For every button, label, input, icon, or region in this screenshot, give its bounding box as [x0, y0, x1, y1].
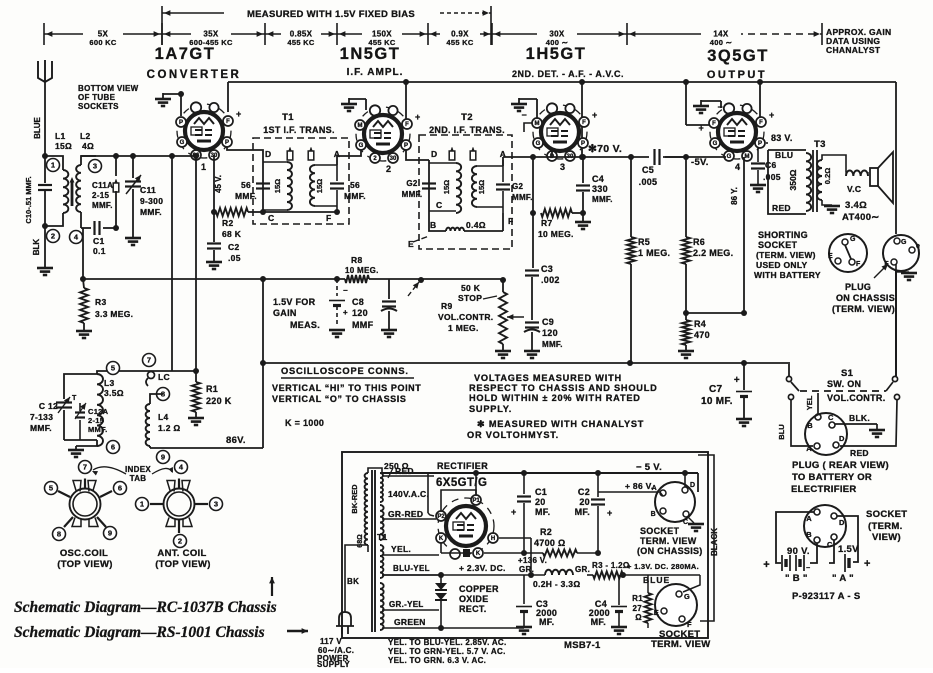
wire pin to osc 2: [195, 155, 197, 372]
svg-text:C7: C7: [709, 384, 723, 395]
svg-text:K: K: [476, 551, 481, 557]
wire bus to 3Q5GT plate: [759, 82, 761, 120]
battery socket pins: [814, 509, 820, 515]
svg-text:1: 1: [201, 162, 206, 172]
wire -5V down: [697, 473, 699, 492]
battery B cells: [781, 555, 783, 571]
svg-text:2ND. I.F. TRANS.: 2ND. I.F. TRANS.: [429, 125, 505, 135]
svg-text:1.5V: 1.5V: [838, 544, 859, 555]
svg-text:2ND. DET. - A.F. - A.V.C.: 2ND. DET. - A.F. - A.V.C.: [512, 69, 624, 79]
svg-text:90 V.: 90 V.: [787, 546, 810, 557]
resistor R3: [83, 279, 84, 288]
svg-text:C10-.51 MMF.: C10-.51 MMF.: [24, 176, 33, 223]
wire 1N5GT plate to D: [406, 150, 429, 160]
svg-text:VERTICAL “HI” TO THIS POINT: VERTICAL “HI” TO THIS POINT: [272, 383, 421, 393]
svg-text:YEL. TO BLU-YEL. 2.85V. AC.: YEL. TO BLU-YEL. 2.85V. AC.: [388, 638, 507, 647]
svg-text:ANT. COIL: ANT. COIL: [157, 548, 206, 559]
svg-text:C12A: C12A: [88, 407, 109, 416]
osc terminal 5: [45, 482, 58, 495]
resistor R2 power: [524, 552, 543, 554]
svg-text:P1: P1: [472, 498, 480, 504]
bias battery 1.5V: [336, 279, 338, 296]
ground antenna line: [37, 267, 53, 270]
svg-text:5: 5: [111, 364, 115, 373]
svg-text:(TERM. VIEW): (TERM. VIEW): [832, 304, 895, 314]
rect tube pins: [471, 495, 481, 505]
svg-text:P-923117 A - S: P-923117 A - S: [792, 591, 860, 602]
svg-text:2: 2: [51, 232, 55, 241]
svg-text:G: G: [359, 143, 364, 149]
svg-text:+: +: [415, 112, 421, 122]
svg-text:(TOP VIEW): (TOP VIEW): [155, 559, 210, 570]
plug on chassis pins: [894, 238, 900, 244]
svg-text:C6: C6: [765, 160, 776, 170]
switch S1 left blade: [788, 364, 790, 376]
svg-text:BLUE: BLUE: [33, 116, 42, 138]
svg-text:(ON CHASSIS): (ON CHASSIS): [637, 546, 703, 556]
capacitor C10: [38, 184, 52, 186]
note plug on chassis: [874, 264, 888, 278]
coil T2 primary: [429, 162, 456, 164]
wire below C10: [44, 191, 46, 268]
svg-text:STOP: STOP: [458, 293, 482, 303]
coil T3 primary: [806, 153, 811, 211]
svg-text:OSCILLOSCOPE CONNS.: OSCILLOSCOPE CONNS.: [281, 366, 409, 376]
svg-text:T1: T1: [282, 112, 294, 123]
svg-text:R4: R4: [694, 319, 706, 329]
svg-text:RECTIFIER: RECTIFIER: [437, 461, 488, 471]
ground at 3Q5GT: [700, 100, 702, 106]
ground socket chassis: [688, 517, 694, 523]
wire bus to 1N5GT: [405, 82, 407, 120]
svg-text:G: G: [727, 154, 732, 160]
svg-text:H: H: [491, 536, 495, 542]
svg-text:(TERM.: (TERM.: [868, 521, 903, 532]
coil L4: [150, 394, 163, 404]
svg-text:T: T: [72, 395, 77, 402]
svg-text:+ 1.3V. DC. 280MA.: + 1.3V. DC. 280MA.: [627, 562, 699, 571]
svg-text:SHORTING: SHORTING: [758, 230, 808, 240]
svg-text:7-133: 7-133: [30, 412, 53, 422]
switch dashed link: [800, 390, 886, 392]
svg-text:MF.: MF.: [535, 507, 550, 517]
terminal 9 osc: [157, 451, 170, 464]
capacitor 56mmf left: [256, 182, 270, 184]
svg-text:K: K: [439, 536, 444, 542]
svg-text:MMF.: MMF.: [30, 423, 52, 433]
svg-text:− 5 V.: − 5 V.: [636, 462, 662, 473]
svg-text:.005: .005: [763, 172, 781, 182]
svg-text:R3: R3: [95, 297, 106, 307]
svg-text:MMF.: MMF.: [344, 191, 366, 201]
trimmer C12A: [79, 420, 81, 440]
svg-text:MMF.: MMF.: [140, 207, 162, 217]
svg-text:OSC.COIL: OSC.COIL: [60, 548, 108, 559]
resistor R2: [216, 208, 248, 216]
svg-text:OXIDE: OXIDE: [459, 594, 489, 604]
svg-text:10 MF.: 10 MF.: [701, 396, 733, 407]
diode copper oxide: [440, 575, 442, 583]
battery A cells: [844, 554, 846, 572]
svg-text:1ST I.F. TRANS.: 1ST I.F. TRANS.: [263, 125, 335, 135]
svg-text:SOCKET: SOCKET: [640, 526, 680, 536]
svg-text:0.4Ω: 0.4Ω: [466, 220, 486, 230]
svg-text:9: 9: [161, 453, 165, 462]
svg-text:+: +: [763, 559, 770, 571]
svg-text:TERM. VIEW: TERM. VIEW: [651, 639, 710, 650]
svg-text:6X5GT/G: 6X5GT/G: [436, 477, 487, 489]
svg-text:K = 1000: K = 1000: [285, 418, 324, 428]
osc coil top view: [70, 489, 101, 520]
svg-text:R2: R2: [222, 218, 233, 228]
ground at 1N5GT: [348, 98, 350, 104]
svg-text:.05: .05: [228, 253, 241, 263]
svg-text:F: F: [712, 121, 716, 127]
svg-text:0.2Ω: 0.2Ω: [823, 168, 832, 184]
ground at 1H5GT: [518, 98, 520, 104]
svg-text:6: 6: [111, 443, 115, 452]
svg-text:YEL. TO GRN. 6.3 V. A: YEL. TO GRN. 6.3 V. AC.: [388, 656, 486, 665]
wire 1.3V line: [623, 574, 700, 576]
wire blue to socket: [683, 575, 700, 592]
coil T1 secondary: [315, 164, 337, 166]
capacitor C1 power: [523, 473, 525, 494]
resistor R1: [195, 371, 197, 382]
terminal 6 osc: [107, 441, 120, 454]
caption arrow up: [271, 577, 273, 596]
svg-text:-5V.: -5V.: [691, 157, 709, 168]
svg-text:455 KC: 455 KC: [287, 38, 315, 47]
power transformer primary: [365, 473, 368, 545]
svg-text:400 ∼: 400 ∼: [710, 38, 733, 47]
choke 0.2H: [545, 570, 573, 575]
svg-text:1N5GT: 1N5GT: [340, 45, 401, 63]
svg-text:CHANALYST: CHANALYST: [826, 45, 881, 55]
tap GR-RED: [382, 518, 436, 520]
svg-text:15Ω: 15Ω: [315, 179, 324, 193]
wire plug chassis down: [895, 264, 897, 272]
T3 primary box: [768, 150, 806, 214]
capacitor C3: [525, 269, 539, 271]
coil L3: [97, 374, 103, 446]
wire top bus: [228, 81, 896, 83]
wire YEL: [817, 393, 819, 414]
svg-text:SOCKET: SOCKET: [866, 509, 907, 520]
svg-text:9: 9: [108, 529, 112, 538]
wire 1H5GT M left: [524, 123, 532, 132]
osc terminal 8: [53, 528, 66, 541]
wire T3 sec bottom: [822, 200, 832, 205]
svg-text:G: G: [180, 140, 185, 146]
svg-text:M: M: [535, 121, 540, 127]
osc terminal 7: [79, 461, 92, 474]
power transformer secondary: [380, 473, 383, 502]
osc terminal 9: [104, 527, 117, 540]
svg-text:PLUG: PLUG: [845, 282, 871, 292]
ant coil legs: [150, 503, 163, 505]
rect tube top bracket: [441, 490, 476, 511]
svg-text:CONVERTER: CONVERTER: [147, 69, 242, 81]
svg-text:GAIN: GAIN: [273, 308, 297, 318]
shorting socket circle: [829, 234, 867, 272]
capacitor C6: [757, 148, 759, 162]
svg-text:RED: RED: [772, 203, 791, 213]
svg-text:455 KC: 455 KC: [446, 38, 474, 47]
pins 1A7GT: [176, 117, 186, 127]
svg-text:R7: R7: [541, 218, 552, 228]
terminal 2: [47, 230, 60, 243]
svg-text:VIEW): VIEW): [872, 532, 901, 543]
svg-text:+ 86 V.: + 86 V.: [625, 481, 654, 491]
svg-text:MEAS.: MEAS.: [290, 320, 320, 330]
coil 0.4ohm: [429, 213, 446, 231]
svg-text:V.C: V.C: [847, 184, 861, 194]
power transformer core: [371, 470, 373, 632]
wire battery B lead: [776, 512, 814, 563]
svg-text:4700 Ω: 4700 Ω: [534, 538, 566, 548]
tap GREEN: [382, 627, 524, 629]
svg-text:G: G: [901, 239, 907, 246]
svg-text:G: G: [536, 141, 541, 147]
trimmer T2 a: [449, 151, 455, 160]
svg-text:M: M: [745, 154, 750, 160]
ground C7: [736, 418, 752, 421]
antenna: [38, 61, 52, 82]
svg-text:P: P: [581, 141, 585, 147]
svg-text:✻ MEASURED WITH CHANALYST: ✻ MEASURED WITH CHANALYST: [477, 419, 644, 429]
svg-text:GR.: GR.: [519, 565, 534, 574]
svg-text:2: 2: [386, 164, 391, 174]
svg-text:GR.-YEL: GR.-YEL: [389, 600, 424, 609]
capacitor C5: [649, 149, 665, 165]
svg-text:140V.A.C.: 140V.A.C.: [388, 489, 429, 499]
mains plug: [345, 545, 368, 612]
svg-text:(TERM. VIEW): (TERM. VIEW): [756, 250, 816, 260]
svg-text:MMF.: MMF.: [235, 191, 257, 201]
wire GR line: [382, 574, 545, 576]
bottom socket: [655, 584, 697, 626]
pins 1N5GT: [355, 120, 365, 130]
svg-text:VOLTAGES MEASURED WITH: VOLTAGES MEASURED WITH: [474, 373, 622, 383]
svg-text:USED ONLY: USED ONLY: [756, 260, 808, 270]
svg-text:MMF.: MMF.: [542, 340, 563, 349]
svg-text:7: 7: [147, 356, 151, 365]
svg-text:MMF.: MMF.: [92, 201, 113, 210]
svg-text:2-15: 2-15: [92, 191, 109, 200]
svg-text:C: C: [683, 519, 688, 526]
coil L1: [45, 156, 63, 170]
svg-text:BK: BK: [347, 577, 359, 586]
capacitor C4 power: [618, 575, 620, 605]
svg-text:350Ω: 350Ω: [788, 169, 798, 190]
svg-text:−: −: [717, 102, 723, 112]
svg-text:1: 1: [51, 161, 55, 170]
trimmer C11A: [115, 156, 117, 176]
svg-text:D: D: [839, 518, 845, 527]
svg-text:BLUE: BLUE: [643, 575, 670, 585]
wire 70V line: [503, 156, 726, 158]
svg-text:5: 5: [49, 484, 53, 493]
capacitor C9: [525, 321, 539, 323]
svg-text:6: 6: [118, 484, 122, 493]
terminal 8 osc: [157, 388, 170, 401]
svg-text:T1: T1: [377, 532, 388, 542]
coil T2 secondary: [477, 165, 503, 167]
wire pin to osc 1: [171, 156, 173, 371]
wire BLU: [791, 400, 813, 446]
tube V4 3Q5GT: [710, 105, 764, 159]
coil T3 secondary: [817, 160, 822, 200]
svg-text:BLK.: BLK.: [849, 413, 870, 423]
svg-text:e: e: [916, 243, 920, 250]
svg-text:+: +: [592, 110, 598, 120]
svg-text:AT400∼: AT400∼: [842, 212, 880, 223]
oscilloscope arrow: [408, 282, 419, 296]
svg-text:C: C: [827, 540, 833, 549]
svg-text:.002: .002: [541, 275, 560, 285]
capacitor C12: [64, 374, 97, 399]
svg-text:−: −: [806, 565, 810, 572]
trimmer T1 b: [308, 151, 314, 160]
capacitor C8: [388, 279, 390, 299]
wire D down to R7: [532, 157, 534, 213]
pins 1H5GT: [532, 118, 542, 128]
wire pin down R2: [213, 155, 215, 212]
svg-text:HOLD WITHIN ± 20% WITH RAT: HOLD WITHIN ± 20% WITH RATED: [469, 393, 641, 403]
svg-text:+: +: [511, 507, 517, 517]
svg-text:C: C: [828, 413, 834, 422]
terminal 1: [47, 159, 60, 172]
svg-text:SUPPLY: SUPPLY: [317, 660, 350, 668]
capacitor C7: [743, 363, 745, 390]
svg-text:F: F: [687, 620, 692, 629]
coupling arrow: [71, 180, 74, 206]
svg-text:2-15: 2-15: [88, 416, 104, 425]
svg-text:MF.: MF.: [575, 507, 590, 517]
gain scale bracket: [162, 12, 224, 14]
wire battery A lead: [837, 516, 858, 562]
svg-text:VOL.CONTR.: VOL.CONTR.: [438, 312, 493, 322]
pins 3Q5GT: [709, 118, 719, 128]
ant coil top view: [164, 489, 195, 520]
svg-text:BK-RED: BK-RED: [350, 484, 359, 514]
svg-text:83 V.: 83 V.: [771, 133, 793, 143]
capacitor C2: [213, 212, 215, 242]
dashed box T2: [419, 135, 512, 249]
variable capacitor C11: [132, 156, 134, 178]
svg-text:C3: C3: [541, 264, 553, 274]
svg-text:YEL. TO GRN-YEL. 5.7 V. AC.: YEL. TO GRN-YEL. 5.7 V. AC.: [388, 647, 506, 656]
svg-text:F: F: [759, 120, 763, 126]
svg-text:+: +: [607, 508, 613, 518]
svg-text:L1: L1: [55, 131, 66, 141]
wire RED: [840, 400, 897, 446]
svg-text:Schematic Diagram—RS-1001 Chas: Schematic Diagram—RS-1001 Chassis: [14, 624, 265, 641]
svg-text:C1: C1: [93, 236, 104, 246]
speaker: [870, 168, 878, 186]
svg-text:D: D: [431, 149, 437, 159]
svg-text:27: 27: [633, 604, 643, 613]
svg-text:P: P: [179, 120, 183, 126]
wire A to 1N5GT grid: [337, 150, 361, 160]
svg-text:+136 V.: +136 V.: [518, 556, 547, 565]
svg-text:WITH BATTERY: WITH BATTERY: [754, 270, 821, 280]
svg-text:MMF.: MMF.: [512, 193, 533, 202]
terminal 4: [70, 231, 83, 244]
svg-text:0.1: 0.1: [93, 246, 106, 256]
wire osc vertical: [262, 279, 264, 363]
svg-text:BOTTOM VIEW: BOTTOM VIEW: [78, 84, 139, 93]
wire bus to 1A7GT: [227, 82, 229, 112]
svg-text:C8: C8: [352, 297, 364, 307]
wire 1H5GT D pin: [551, 151, 553, 157]
svg-text:1 MEG.: 1 MEG.: [448, 323, 479, 333]
svg-text:F: F: [326, 213, 332, 223]
voice coil: [846, 170, 868, 176]
svg-text:D: D: [839, 434, 845, 443]
svg-text:B: B: [430, 220, 436, 230]
svg-text:LC: LC: [158, 372, 170, 382]
svg-text:R2: R2: [540, 527, 552, 537]
svg-text:C1: C1: [535, 487, 547, 497]
wire 86Y vertical: [743, 157, 745, 313]
svg-text:C11: C11: [140, 185, 156, 195]
svg-text:1: 1: [140, 500, 144, 509]
terminal 3: [89, 160, 102, 173]
svg-text:R8: R8: [351, 255, 362, 265]
svg-text:E: E: [828, 253, 833, 260]
svg-text:220 K: 220 K: [206, 396, 232, 406]
svg-text:2.2 MEG.: 2.2 MEG.: [693, 248, 733, 258]
svg-text:1.5V FOR: 1.5V FOR: [273, 297, 316, 307]
svg-text:MMF.: MMF.: [592, 195, 613, 204]
svg-text:TERM. VIEW: TERM. VIEW: [640, 536, 697, 546]
wire heater line: [440, 543, 442, 553]
resistor R4: [685, 313, 687, 320]
wire D pin up: [684, 473, 686, 487]
svg-text:−: −: [343, 286, 348, 295]
gain scale line with segment ticks: [44, 33, 700, 35]
coil LC pickup: [148, 372, 155, 379]
svg-text:68 K: 68 K: [222, 229, 242, 239]
svg-text:+: +: [734, 375, 740, 386]
wire bus 279: [83, 278, 345, 280]
wire L3 top: [97, 371, 147, 374]
svg-text:SW. ON: SW. ON: [827, 379, 861, 389]
svg-text:P: P: [404, 143, 408, 149]
resistor R8: [345, 275, 369, 283]
svg-text:F: F: [226, 119, 230, 125]
svg-text:470: 470: [694, 330, 710, 340]
terminal 7 osc: [143, 354, 156, 367]
svg-text:MMF.: MMF.: [402, 190, 423, 199]
svg-text:R9: R9: [441, 301, 452, 311]
T3 core: [812, 150, 814, 212]
svg-text:+ 2.3V. DC.: + 2.3V. DC.: [459, 563, 506, 573]
wire H down: [499, 537, 531, 539]
wire T1 bottom: [263, 211, 337, 213]
svg-text:330: 330: [592, 184, 608, 194]
capacitor G2 left: [422, 182, 436, 184]
svg-text:30: 30: [390, 156, 397, 162]
ground T3: [824, 205, 840, 208]
svg-text:MMF: MMF: [352, 320, 374, 330]
svg-text:45 V.: 45 V.: [214, 175, 223, 193]
svg-text:PLUG ( REAR VIEW): PLUG ( REAR VIEW): [792, 460, 889, 471]
resistor R3 power: [587, 574, 593, 576]
wire B pin down: [810, 543, 817, 563]
svg-text:I.F. AMPL.: I.F. AMPL.: [347, 67, 404, 78]
